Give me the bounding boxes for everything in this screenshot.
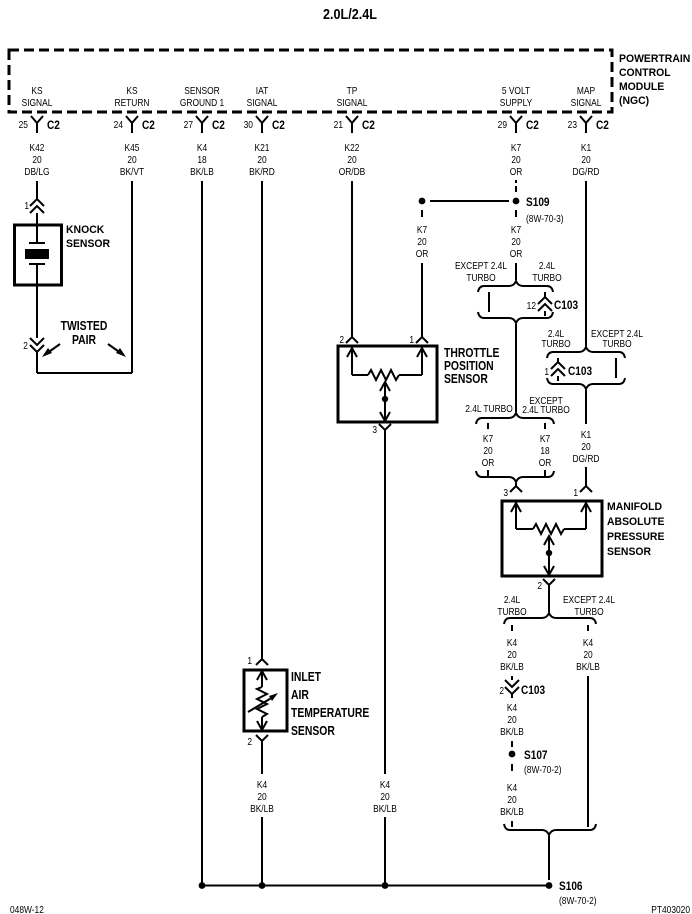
svg-text:5 VOLT: 5 VOLT <box>502 85 531 96</box>
svg-text:BK/LB: BK/LB <box>500 726 524 737</box>
svg-text:2.0L/2.4L: 2.0L/2.4L <box>323 6 377 22</box>
svg-text:C2: C2 <box>142 119 155 132</box>
svg-text:TP: TP <box>347 85 358 96</box>
svg-text:SENSOR: SENSOR <box>66 238 110 250</box>
svg-text:25: 25 <box>19 119 28 130</box>
svg-text:S109: S109 <box>526 196 550 209</box>
svg-text:SENSOR: SENSOR <box>444 372 488 386</box>
svg-text:12: 12 <box>527 300 536 311</box>
svg-text:K22: K22 <box>345 142 360 153</box>
svg-text:20: 20 <box>257 154 266 165</box>
svg-text:C2: C2 <box>362 119 375 132</box>
svg-text:(8W-70-2): (8W-70-2) <box>559 895 597 906</box>
svg-text:BK/LB: BK/LB <box>250 803 274 814</box>
svg-text:CONTROL: CONTROL <box>619 67 671 79</box>
svg-text:C2: C2 <box>526 119 539 132</box>
svg-text:OR: OR <box>510 248 523 259</box>
svg-text:2: 2 <box>339 334 344 345</box>
svg-text:OR: OR <box>510 166 523 177</box>
svg-text:2.4L TURBO: 2.4L TURBO <box>465 403 513 414</box>
svg-text:K4: K4 <box>583 637 593 648</box>
svg-text:DB/LG: DB/LG <box>24 166 49 177</box>
svg-text:SUPPLY: SUPPLY <box>500 97 532 108</box>
svg-text:1: 1 <box>409 334 414 345</box>
svg-text:3: 3 <box>372 424 377 435</box>
svg-text:OR: OR <box>539 457 552 468</box>
svg-text:20: 20 <box>380 791 389 802</box>
svg-text:29: 29 <box>498 119 507 130</box>
svg-text:C2: C2 <box>272 119 285 132</box>
svg-text:21: 21 <box>334 119 343 130</box>
svg-text:TEMPERATURE: TEMPERATURE <box>291 706 369 720</box>
svg-text:C2: C2 <box>212 119 225 132</box>
svg-text:C2: C2 <box>47 119 60 132</box>
svg-text:20: 20 <box>511 236 520 247</box>
svg-text:24: 24 <box>114 119 123 130</box>
svg-text:BK/LB: BK/LB <box>500 661 524 672</box>
svg-text:DG/RD: DG/RD <box>572 166 599 177</box>
svg-text:1: 1 <box>24 200 29 211</box>
svg-text:2: 2 <box>23 340 28 351</box>
svg-text:BK/LB: BK/LB <box>373 803 397 814</box>
svg-text:PT403020: PT403020 <box>651 904 690 914</box>
svg-text:2: 2 <box>499 685 504 696</box>
svg-text:BK/VT: BK/VT <box>120 166 145 177</box>
svg-text:TURBO: TURBO <box>574 606 603 617</box>
svg-text:C103: C103 <box>521 684 545 697</box>
svg-text:(8W-70-2): (8W-70-2) <box>524 764 562 775</box>
svg-text:DG/RD: DG/RD <box>572 453 599 464</box>
svg-text:SIGNAL: SIGNAL <box>22 97 53 108</box>
svg-text:OR: OR <box>482 457 495 468</box>
svg-text:SIGNAL: SIGNAL <box>247 97 278 108</box>
svg-text:S107: S107 <box>524 749 548 762</box>
svg-text:MODULE: MODULE <box>619 81 664 93</box>
svg-text:20: 20 <box>347 154 356 165</box>
svg-text:20: 20 <box>507 714 516 725</box>
svg-text:20: 20 <box>581 154 590 165</box>
svg-text:K7: K7 <box>417 224 427 235</box>
svg-text:INLET: INLET <box>291 670 322 684</box>
svg-text:SENSOR: SENSOR <box>291 724 335 738</box>
svg-text:MAP: MAP <box>577 85 595 96</box>
svg-text:K4: K4 <box>507 782 517 793</box>
svg-text:20: 20 <box>507 794 516 805</box>
svg-text:20: 20 <box>583 649 592 660</box>
svg-text:18: 18 <box>197 154 206 165</box>
svg-text:K45: K45 <box>125 142 140 153</box>
svg-text:K7: K7 <box>540 433 550 444</box>
svg-text:SENSOR: SENSOR <box>607 546 651 558</box>
svg-text:IAT: IAT <box>256 85 269 96</box>
svg-text:BK/LB: BK/LB <box>190 166 214 177</box>
svg-text:K4: K4 <box>197 142 207 153</box>
svg-text:EXCEPT 2.4L: EXCEPT 2.4L <box>563 594 615 605</box>
svg-text:(NGC): (NGC) <box>619 95 650 107</box>
svg-text:K7: K7 <box>483 433 493 444</box>
svg-text:TWISTED: TWISTED <box>61 319 108 333</box>
svg-text:TURBO: TURBO <box>541 338 570 349</box>
svg-text:SENSOR: SENSOR <box>184 85 220 96</box>
svg-text:POWERTRAIN: POWERTRAIN <box>619 53 691 65</box>
svg-text:S106: S106 <box>559 880 583 893</box>
svg-text:SIGNAL: SIGNAL <box>571 97 602 108</box>
svg-text:K1: K1 <box>581 429 591 440</box>
svg-text:OR/DB: OR/DB <box>339 166 366 177</box>
svg-text:048W-12: 048W-12 <box>10 904 44 914</box>
svg-text:20: 20 <box>581 441 590 452</box>
svg-text:BK/LB: BK/LB <box>500 806 524 817</box>
svg-text:C103: C103 <box>568 365 592 378</box>
svg-text:BK/RD: BK/RD <box>249 166 275 177</box>
svg-text:SIGNAL: SIGNAL <box>337 97 368 108</box>
svg-text:2: 2 <box>537 580 542 591</box>
svg-text:2.4L: 2.4L <box>504 594 520 605</box>
svg-text:PAIR: PAIR <box>72 333 97 347</box>
svg-text:AIR: AIR <box>291 688 309 702</box>
svg-text:ABSOLUTE: ABSOLUTE <box>607 516 664 528</box>
svg-text:K7: K7 <box>511 142 521 153</box>
svg-text:K1: K1 <box>581 142 591 153</box>
svg-text:2.4L TURBO: 2.4L TURBO <box>522 404 570 415</box>
svg-text:18: 18 <box>540 445 549 456</box>
svg-text:GROUND 1: GROUND 1 <box>180 97 224 108</box>
svg-text:KS: KS <box>126 85 137 96</box>
svg-text:BK/LB: BK/LB <box>576 661 600 672</box>
svg-text:(8W-70-3): (8W-70-3) <box>526 213 564 224</box>
svg-text:2: 2 <box>247 736 252 747</box>
svg-text:TURBO: TURBO <box>532 272 561 283</box>
svg-text:20: 20 <box>511 154 520 165</box>
svg-text:K4: K4 <box>380 779 390 790</box>
svg-text:1: 1 <box>573 487 578 498</box>
svg-text:20: 20 <box>417 236 426 247</box>
svg-text:K42: K42 <box>30 142 45 153</box>
svg-text:K21: K21 <box>255 142 270 153</box>
svg-text:20: 20 <box>257 791 266 802</box>
svg-text:3: 3 <box>503 487 508 498</box>
svg-text:20: 20 <box>32 154 41 165</box>
svg-text:2.4L: 2.4L <box>539 260 555 271</box>
svg-text:MANIFOLD: MANIFOLD <box>607 501 662 513</box>
svg-text:30: 30 <box>244 119 253 130</box>
svg-text:20: 20 <box>483 445 492 456</box>
svg-text:20: 20 <box>127 154 136 165</box>
svg-text:27: 27 <box>184 119 193 130</box>
svg-text:RETURN: RETURN <box>115 97 150 108</box>
svg-text:C2: C2 <box>596 119 609 132</box>
svg-text:OR: OR <box>416 248 429 259</box>
svg-text:1: 1 <box>247 655 252 666</box>
svg-text:K4: K4 <box>507 637 517 648</box>
svg-text:TURBO: TURBO <box>602 338 631 349</box>
svg-text:EXCEPT 2.4L: EXCEPT 2.4L <box>455 260 507 271</box>
svg-text:TURBO: TURBO <box>466 272 495 283</box>
svg-text:K7: K7 <box>511 224 521 235</box>
svg-text:K4: K4 <box>257 779 267 790</box>
svg-text:K4: K4 <box>507 702 517 713</box>
svg-text:KNOCK: KNOCK <box>66 224 105 236</box>
svg-text:20: 20 <box>507 649 516 660</box>
svg-text:KS: KS <box>31 85 42 96</box>
svg-text:1: 1 <box>544 366 549 377</box>
svg-text:23: 23 <box>568 119 577 130</box>
svg-text:C103: C103 <box>554 299 578 312</box>
svg-text:TURBO: TURBO <box>497 606 526 617</box>
svg-text:PRESSURE: PRESSURE <box>607 531 664 543</box>
